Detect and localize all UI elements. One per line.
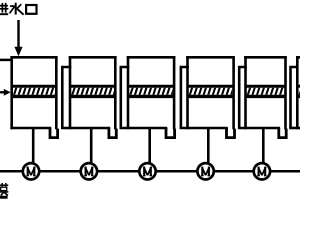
tank T3 outline (120, 56, 176, 129)
label 进水口 (water inlet), 进 cropped by left edge (0, 3, 37, 15)
motor M2 (81, 163, 97, 179)
membrane hatch band in tank T4 (185, 86, 234, 96)
tank T4 outline (180, 56, 235, 129)
tank T1 outline (10, 56, 57, 129)
wire: stirrer shaft from tank 2 to motor M2 (90, 128, 93, 171)
pipe: outlet sump under tank T2 (109, 128, 116, 138)
wire: stirrer shaft from tank 4 to motor M4 (207, 128, 210, 171)
cropped line fragment at bottom-left corner (0, 196, 8, 199)
membrane hatch band in tank T2 (67, 86, 116, 96)
pipe: cropped inlet stub at left edge of tank T1 (0, 59, 13, 62)
wire: stirrer shaft from tank 3 to motor M3 (148, 128, 151, 171)
pipe: riser channel into tank T4 (181, 67, 189, 128)
tank T6 outline (289, 56, 300, 129)
label 膜 (membrane), cropped by left edge (0, 183, 8, 196)
pipe: riser channel into tank T2 (62, 67, 71, 128)
arrow: inlet flow into top of tank T1 (14, 20, 22, 56)
pipe: outlet sump under tank T3 (166, 128, 175, 138)
motor M3 (139, 163, 155, 179)
arrow: feed into side of tank T1 at membrane level (0, 89, 11, 96)
membrane hatch band in tank T5 (243, 86, 288, 96)
tank T5 outline (238, 56, 287, 129)
tank T2 outline (61, 56, 117, 129)
pipe: riser channel into tank T3 (121, 67, 130, 128)
motor M4 (197, 163, 213, 179)
membrane hatch band in tank T3 (125, 86, 174, 96)
pipe: outlet sump under tank T5 (279, 128, 286, 138)
wire: stirrer shaft from tank 5 to motor M5 (262, 128, 265, 171)
motor M1 (23, 163, 39, 179)
wire: stirrer shaft from tank 1 to motor M1 (32, 128, 35, 171)
wire: common motor bus line (0, 170, 300, 173)
pipe: outlet sump under tank T1 (50, 128, 58, 138)
pipe: riser channel into tank T6 (291, 67, 299, 128)
pipe: outlet sump under tank T4 (227, 128, 235, 138)
motor M5 (254, 163, 270, 179)
membrane hatch band in tank T6 (295, 86, 303, 96)
pipe: riser channel into tank T5 (239, 67, 247, 128)
membrane hatch band in tank T1 (9, 86, 58, 96)
